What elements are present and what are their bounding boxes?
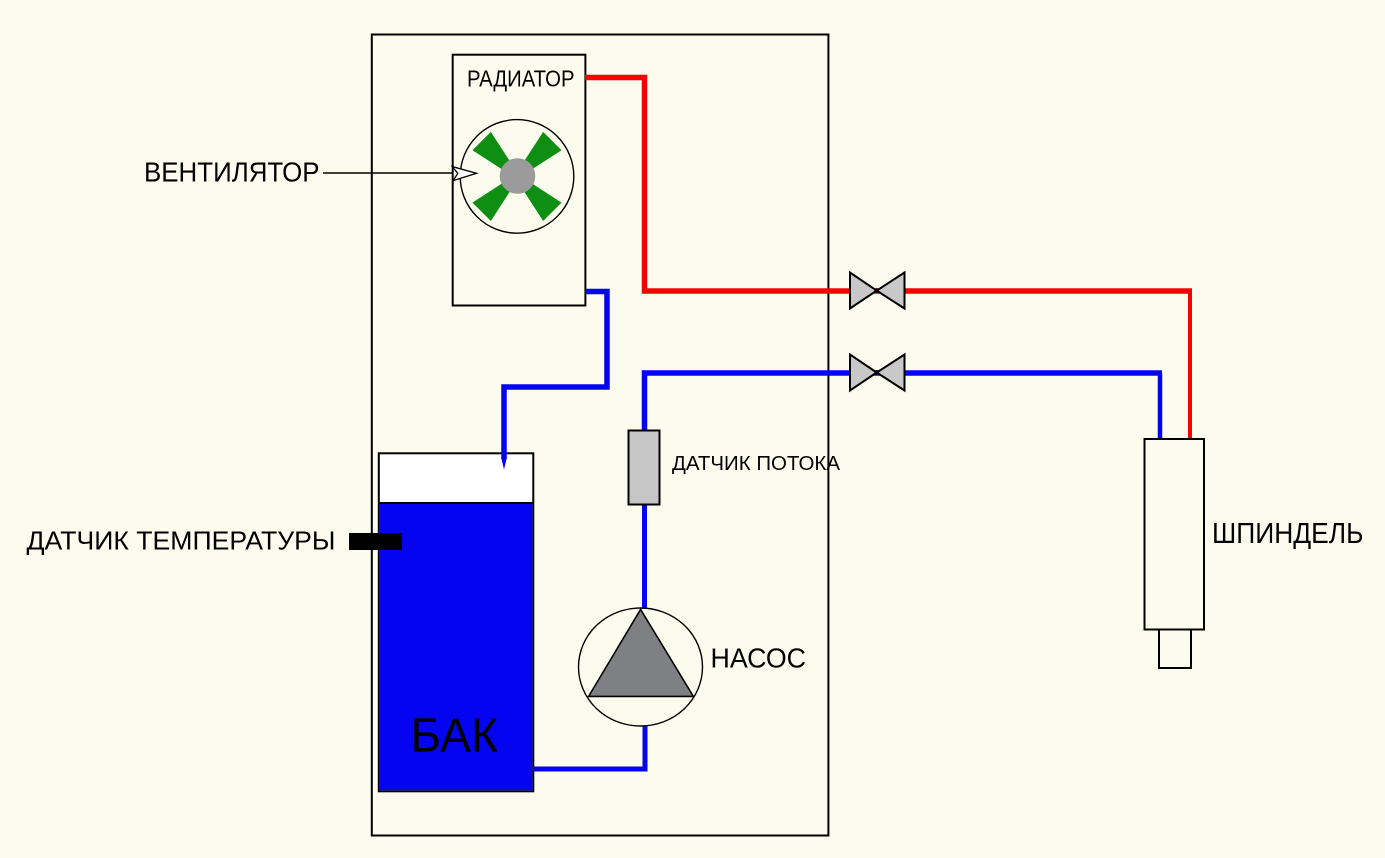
valve V1 (hot line): [850, 273, 905, 309]
fan blade SW: [472, 178, 515, 221]
flow sensor body: [629, 431, 660, 505]
fan leader arrowhead: [452, 167, 476, 181]
svg-text:БАК: БАК: [411, 710, 499, 763]
fan blade NE: [518, 132, 561, 175]
fan leader line: [323, 172, 453, 174]
spindle body: [1145, 439, 1205, 630]
valve V2 (cold line): [850, 355, 905, 391]
tank (БАК) body: [379, 453, 534, 791]
fan blade SE: [518, 178, 561, 221]
blue pipe (pump outlet to tank): [533, 726, 645, 769]
svg-text:ШПИНДЕЛЬ: ШПИНДЕЛЬ: [1212, 518, 1364, 550]
blue pipe (radiator outlet to tank): [504, 292, 607, 460]
enclosure cabinet box: [372, 35, 829, 836]
blue pipe (flow sensor to valve to spindle): [645, 373, 1163, 432]
tank water fill: [380, 504, 533, 790]
svg-text:НАСОС: НАСОС: [711, 643, 807, 674]
pipe tip into tank: [501, 457, 507, 470]
valve V1 stem junction dot: [874, 288, 879, 293]
temperature sensor block: [349, 533, 402, 550]
blue pipe drop to spindle: [1158, 373, 1163, 439]
svg-text:ДАТЧИК ПОТОКА: ДАТЧИК ПОТОКА: [672, 453, 841, 475]
red pipe (hot: radiator to valve to spindle): [585, 78, 1192, 292]
svg-text:РАДИАТОР: РАДИАТОР: [467, 66, 575, 92]
red pipe drop to spindle: [1188, 291, 1192, 439]
pump impeller triangle: [589, 609, 694, 696]
svg-text:ДАТЧИК ТЕМПЕРАТУРЫ: ДАТЧИК ТЕМПЕРАТУРЫ: [27, 526, 336, 556]
radiator box: [453, 55, 586, 306]
blue pipe (flow sensor to pump): [642, 502, 647, 609]
svg-text:ВЕНТИЛЯТОР: ВЕНТИЛЯТОР: [144, 157, 320, 188]
fan blade NW: [472, 132, 515, 175]
pump circle: [579, 608, 703, 726]
fan hub: [500, 158, 536, 194]
valve V2 stem junction dot: [874, 370, 879, 375]
tank water surface line: [379, 502, 534, 504]
spindle stub: [1159, 630, 1191, 669]
fan circle: [460, 120, 574, 234]
